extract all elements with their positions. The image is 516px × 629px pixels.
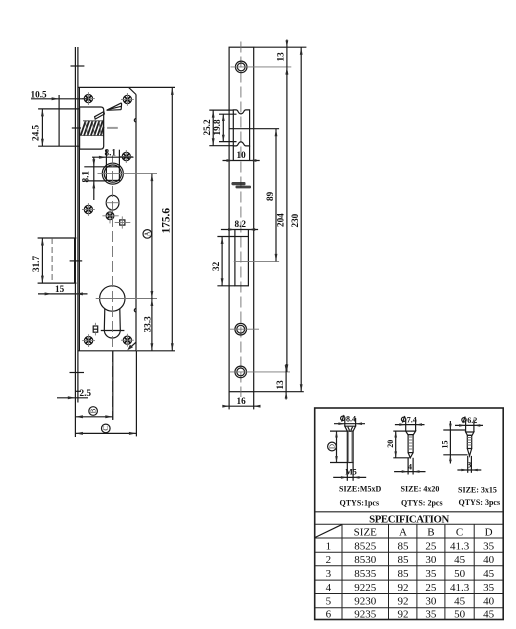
spring bottom line [82,135,103,137]
svg-text:QTYS: 2pcs: QTYS: 2pcs [401,498,443,507]
svg-text:41.3: 41.3 [450,540,470,552]
svg-text:SIZE: SIZE [354,526,378,538]
slot centerline [234,260,279,262]
top hole [231,61,292,73]
svg-text:SIZE:M5xD: SIZE:M5xD [339,485,381,494]
svg-text:85: 85 [398,540,410,552]
row line 6 [315,607,504,609]
svg-text:B: B [427,526,434,538]
dim 10.5 [31,90,89,101]
svg-text:35: 35 [425,568,437,580]
screw 1 head [345,426,356,431]
svg-text:9235: 9235 [354,608,377,620]
header diagonal [315,525,342,538]
svg-text:C: C [103,426,110,431]
svg-text:50: 50 [454,568,466,580]
screw 3 dia dim [455,416,483,432]
svg-text:15: 15 [55,284,65,294]
row line 1 [315,537,504,539]
case right edge [135,95,137,351]
svg-text:30: 30 [425,554,437,566]
spindle horizontal centerline [98,173,158,175]
dim 31.7 [31,238,76,283]
latch top line [38,108,79,110]
screw 2 tip dim 4 [394,458,425,475]
svg-text:8530: 8530 [354,554,377,566]
oval centerline [106,202,119,204]
gray stub line [107,127,118,129]
faceplate break tick middle [70,260,83,262]
svg-text:16: 16 [237,396,247,406]
svg-text:D: D [485,526,493,538]
svg-text:204: 204 [276,213,286,227]
svg-text:A: A [145,231,152,236]
svg-text:QTYS:1pcs: QTYS:1pcs [340,498,380,507]
screw 3 length dim 15 [441,421,468,464]
svg-text:45: 45 [483,608,495,620]
svg-text:25: 25 [425,540,437,552]
latch cutout [233,110,249,146]
row line 2 [315,551,504,553]
dim 19.8 [212,114,237,141]
vertical dashed centerline [112,156,114,420]
dim 13 top [276,40,289,75]
spring axis lead line [72,127,81,129]
svg-text:45: 45 [454,596,466,608]
table outer border [315,408,504,620]
svg-text:31.7: 31.7 [31,256,41,272]
dim 25.2 [202,110,233,146]
latch bolt tip face [58,95,60,146]
plate centerline [240,42,242,398]
screw 1 dia dim [334,415,365,427]
screw 1 shaft [347,431,353,462]
svg-text:9230: 9230 [354,596,377,608]
svg-text:QTYS: 3pcs: QTYS: 3pcs [459,498,501,507]
svg-text:92: 92 [398,582,409,594]
svg-text:4: 4 [326,582,332,594]
euro cylinder neck [104,309,120,338]
svg-text:8525: 8525 [354,540,377,552]
dim 10 [223,146,260,162]
plate outline [229,47,254,392]
dim 230 [290,47,303,392]
svg-text:92: 92 [398,596,409,608]
svg-text:SIZE: 3x15: SIZE: 3x15 [458,485,497,494]
dim 24.5 [31,109,44,146]
svg-text:19.8: 19.8 [212,119,222,135]
svg-text:5: 5 [326,596,332,608]
cylinder fixing symbol [93,323,98,336]
wedge inner line [108,106,122,109]
svg-text:32: 32 [211,261,221,271]
spindle hole inner circle [104,165,121,182]
case right edge notch upper [134,119,136,122]
dim 89 [230,129,280,262]
slot cutout [235,237,249,286]
screw 2 dia dim [395,416,425,432]
dim 8.1 vertical [81,158,107,201]
svg-text:35: 35 [425,608,437,620]
screw 3 tip dim 3 [457,456,481,473]
case front edge [78,87,80,350]
screw S2 [121,93,134,106]
spec band bottom line [315,523,504,525]
euro circle centerline [96,298,157,300]
dim 33.3 [142,299,153,351]
svg-text:10: 10 [237,150,247,160]
wedge cam [107,103,122,110]
screw 2 shaft [408,435,413,453]
row line 4 [315,579,504,581]
oval hole [106,195,119,210]
case top edge [78,86,175,88]
screw S3 [120,150,133,163]
svg-text:35: 35 [483,582,495,594]
screw S7 [121,334,134,347]
svg-text:92: 92 [398,608,409,620]
svg-text:2.5: 2.5 [80,388,92,398]
svg-text:25: 25 [425,582,437,594]
svg-text:45: 45 [454,554,466,566]
svg-text:6.2: 6.2 [467,416,477,425]
svg-text:50: 50 [454,608,466,620]
screw 1 M5 dim [333,463,366,481]
svg-text:30: 30 [425,596,437,608]
table data rows [326,540,495,620]
dim 32 [211,237,235,286]
spring coil back strokes [85,121,101,136]
svg-text:15: 15 [441,441,450,449]
svg-text:20: 20 [386,440,395,448]
plate bottom extension line [254,391,304,393]
spec band top line [315,511,504,513]
screw 2 length dim 20 [386,431,410,458]
svg-text:8535: 8535 [354,568,377,580]
case right edge notch lower [134,309,136,312]
logo mark [231,182,251,188]
header row [354,526,493,538]
dim B [75,351,112,420]
svg-text:40: 40 [483,596,495,608]
dim 13 bottom [275,364,288,400]
svg-text:8.1: 8.1 [81,171,91,183]
dim 15 [38,284,88,295]
svg-text:175.6: 175.6 [161,208,173,234]
bottom hole [230,366,290,378]
screw S1 [82,92,95,105]
screw 2 threads [408,437,413,449]
bottom lever arrow [127,342,136,350]
dim 8.2 [221,219,258,236]
latch bottom line [38,145,79,147]
dim 175.6 [137,87,176,350]
spindle square hole [106,167,119,181]
svg-text:89: 89 [265,191,275,201]
svg-text:85: 85 [398,568,410,580]
specification table block [315,408,504,620]
svg-text:25.2: 25.2 [202,119,212,135]
screw S5 [102,208,118,223]
svg-text:D: D [329,444,336,449]
screw 3 head [466,432,474,435]
screw 1 shaft inner lines [348,431,350,462]
lever bar [95,112,105,120]
spring end plate [102,120,104,137]
svg-text:1: 1 [326,540,332,552]
svg-text:C: C [456,526,463,538]
row line 3 [315,565,504,567]
svg-text:SIZE: 4x20: SIZE: 4x20 [401,485,440,494]
svg-text:40: 40 [483,554,495,566]
screw 3 tip [467,449,471,456]
svg-text:SPECIFICATION: SPECIFICATION [369,513,449,525]
screw 2 tip [408,453,413,458]
case bottom edge [78,350,136,352]
euro cylinder circle [100,286,125,311]
spring coil [81,121,104,136]
dim C [75,351,136,436]
screw 3 shaft [467,435,471,448]
screw 3 threads [467,438,471,446]
euro neck bottom line [101,330,125,332]
svg-text:A: A [399,526,407,538]
svg-text:10.5: 10.5 [31,90,47,100]
faceplate break tick bottom [70,372,85,374]
middle hole [230,323,259,335]
svg-text:230: 230 [290,213,300,227]
spring top line [83,120,103,122]
dim 8.1 horizontal [92,148,134,167]
dim 204 [276,67,289,372]
screw 1 head slots [348,427,353,431]
row line 5 [315,593,504,595]
lock body left view [31,47,176,437]
svg-text:13: 13 [275,380,285,390]
dim 2.5 [57,388,91,399]
screw 2 head [406,431,416,435]
screw 1 length dim D [328,431,347,462]
svg-text:6: 6 [326,608,332,620]
svg-text:13: 13 [276,52,286,62]
faceplate edge line outer [74,47,76,437]
svg-text:B: B [90,408,97,413]
faceplate front view [202,40,307,410]
screw S6 [82,334,95,347]
svg-text:8.4: 8.4 [346,415,356,424]
svg-text:35: 35 [483,540,495,552]
column separators [342,524,474,619]
screw S4 [82,203,95,216]
plate top extension line [254,46,307,48]
faceplate edge line inner [77,47,79,403]
spindle hole outer circle [102,163,123,184]
svg-text:24.5: 24.5 [31,125,41,141]
dim 16 [222,392,260,410]
svg-text:9225: 9225 [354,582,377,594]
latch guide box [80,107,104,149]
svg-text:45: 45 [483,568,495,580]
svg-text:33.3: 33.3 [142,316,152,332]
svg-text:8.1: 8.1 [105,148,117,158]
dim A [143,174,153,299]
adjuster square symbol [115,216,131,228]
svg-text:41.3: 41.3 [450,582,470,594]
svg-text:3: 3 [326,568,332,580]
svg-text:85: 85 [398,554,410,566]
svg-text:8.2: 8.2 [235,219,247,229]
svg-text:2: 2 [326,554,332,566]
faceplate break tick top [71,65,85,67]
